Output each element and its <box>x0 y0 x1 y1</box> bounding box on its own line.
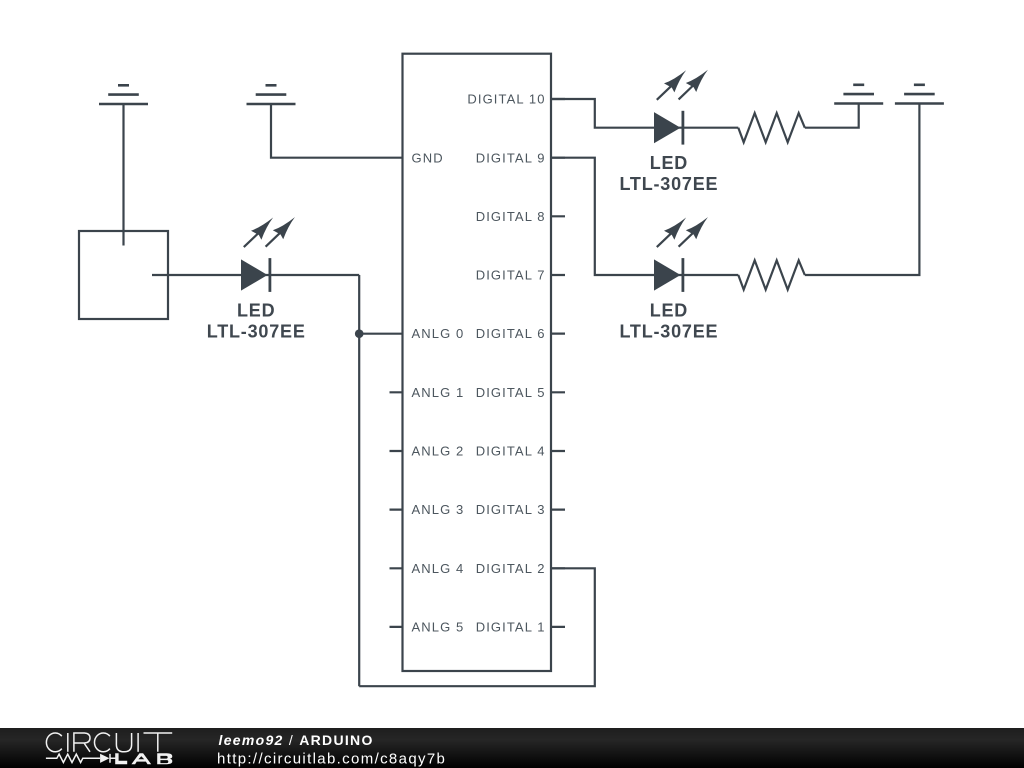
svg-text:ANLG 3: ANLG 3 <box>412 502 465 517</box>
svg-text:GND: GND <box>412 150 444 165</box>
svg-text:http://circuitlab.com/c8aqy7b: http://circuitlab.com/c8aqy7b <box>217 751 446 768</box>
svg-text:DIGITAL 3: DIGITAL 3 <box>476 502 546 517</box>
svg-text:ANLG 2: ANLG 2 <box>412 444 465 459</box>
svg-text:ANLG 1: ANLG 1 <box>412 385 465 400</box>
svg-text:LTL-307EE: LTL-307EE <box>619 321 718 341</box>
svg-text:LED: LED <box>650 301 688 321</box>
svg-text:DIGITAL 5: DIGITAL 5 <box>476 385 546 400</box>
svg-text:DIGITAL 1: DIGITAL 1 <box>476 620 546 635</box>
svg-text:DIGITAL 8: DIGITAL 8 <box>476 209 546 224</box>
svg-text:DIGITAL 4: DIGITAL 4 <box>476 444 546 459</box>
svg-text:DIGITAL 7: DIGITAL 7 <box>476 268 546 283</box>
svg-text:leemo92 / ARDUINO: leemo92 / ARDUINO <box>219 732 374 748</box>
svg-text:LTL-307EE: LTL-307EE <box>619 174 718 194</box>
svg-text:ANLG 0: ANLG 0 <box>412 326 465 341</box>
svg-text:DIGITAL 6: DIGITAL 6 <box>476 326 546 341</box>
svg-text:LTL-307EE: LTL-307EE <box>207 321 306 341</box>
svg-text:DIGITAL 9: DIGITAL 9 <box>476 150 546 165</box>
svg-text:DIGITAL 10: DIGITAL 10 <box>467 92 545 107</box>
svg-text:LED: LED <box>650 153 688 173</box>
svg-text:DIGITAL 2: DIGITAL 2 <box>476 561 546 576</box>
svg-text:ANLG 5: ANLG 5 <box>412 620 465 635</box>
svg-text:LED: LED <box>237 301 275 321</box>
svg-text:ANLG 4: ANLG 4 <box>412 561 465 576</box>
